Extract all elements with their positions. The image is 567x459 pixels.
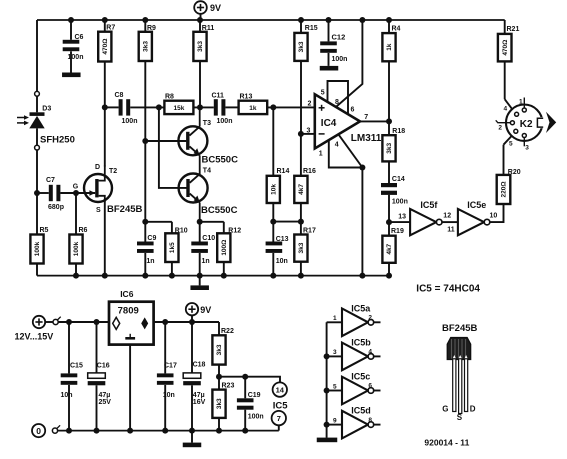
ground below C12 xyxy=(320,66,339,71)
node C15 top xyxy=(66,319,72,325)
node pins1-4 xyxy=(359,165,365,171)
capacitor C10 xyxy=(191,222,215,276)
K2 output arrow xyxy=(546,112,556,133)
wire R21 to K2 pin4 xyxy=(505,99,515,113)
resistor R4 xyxy=(382,20,400,121)
node gndbus-C18 xyxy=(189,428,195,434)
svg-text:470Ω: 470Ω xyxy=(502,40,509,56)
capacitor C12 xyxy=(320,20,347,66)
node R8-R11-T3 collector-C11 xyxy=(197,104,203,110)
svg-text:10n: 10n xyxy=(163,392,175,399)
resistor R21 xyxy=(498,20,520,99)
capacitor C8 xyxy=(105,92,165,125)
wire T4 emitter down xyxy=(199,203,201,222)
plug contact 0 xyxy=(52,425,60,433)
wire pin3 to IC4 xyxy=(301,133,315,135)
svg-text:BC550C: BC550C xyxy=(201,205,238,216)
svg-text:1: 1 xyxy=(519,98,523,105)
node rail-R11 and 9V xyxy=(197,17,203,23)
svg-text:47µ: 47µ xyxy=(193,392,205,399)
svg-text:D: D xyxy=(95,164,100,171)
label 12V...15V xyxy=(15,332,54,342)
svg-text:R19: R19 xyxy=(391,228,404,235)
K2 pin 2 xyxy=(496,120,515,131)
plug contact input xyxy=(53,317,61,325)
svg-text:5: 5 xyxy=(321,90,325,97)
svg-text:3k3: 3k3 xyxy=(216,344,223,355)
svg-text:R12: R12 xyxy=(228,228,241,235)
svg-text:13: 13 xyxy=(398,213,406,220)
svg-text:25V: 25V xyxy=(99,399,112,406)
node gndbus-C15 xyxy=(66,428,72,434)
resistor R7 xyxy=(98,20,115,107)
node R14-C13 xyxy=(270,219,276,225)
svg-text:C7: C7 xyxy=(46,177,55,184)
node C16 top xyxy=(94,319,100,325)
terminal below D3 xyxy=(35,145,40,150)
wire ground bus top section xyxy=(37,275,389,277)
svg-text:D: D xyxy=(470,405,476,414)
svg-text:IC6: IC6 xyxy=(120,289,134,299)
svg-text:IC5a: IC5a xyxy=(351,303,371,313)
resistor R6 xyxy=(69,193,87,276)
svg-text:10n: 10n xyxy=(61,392,73,399)
pin 1 label xyxy=(319,151,323,158)
svg-text:R14: R14 xyxy=(277,168,290,175)
svg-text:1n: 1n xyxy=(146,258,154,265)
wire T3 collector xyxy=(199,107,201,126)
inverter IC5b xyxy=(327,337,381,370)
transistor T4 BC550C xyxy=(179,167,238,215)
node rail-R4 xyxy=(386,17,392,23)
node pin3 xyxy=(298,131,304,137)
resistor R11 xyxy=(193,20,214,107)
svg-text:47µ: 47µ xyxy=(99,392,111,399)
capacitor C9 xyxy=(137,235,156,276)
svg-text:IC5b: IC5b xyxy=(351,337,371,347)
wire IC5f to IC5e xyxy=(442,221,458,223)
svg-text:C10: C10 xyxy=(202,235,215,242)
IC5 pin 7 circle xyxy=(272,411,286,431)
wire IC5 input bus xyxy=(326,322,328,438)
wire R8 to node xyxy=(193,106,213,108)
svg-text:100n: 100n xyxy=(248,414,264,421)
svg-text:BC550C: BC550C xyxy=(202,155,239,166)
svg-text:100n: 100n xyxy=(122,118,138,125)
svg-text:100n: 100n xyxy=(68,54,84,61)
node bus-IC5b xyxy=(324,353,330,359)
svg-text:T2: T2 xyxy=(109,168,117,175)
svg-text:100n: 100n xyxy=(332,56,348,63)
wire pins1-4 to rail xyxy=(361,168,363,276)
IC5 pin 14 circle xyxy=(273,382,287,396)
svg-text:2: 2 xyxy=(368,315,372,322)
svg-text:R6: R6 xyxy=(79,227,88,234)
label T2 pins and name xyxy=(73,164,143,215)
wire R13 to IC4 pin2 xyxy=(267,106,315,108)
resistor R9 xyxy=(139,20,156,141)
svg-text:12V...15V: 12V...15V xyxy=(15,332,54,342)
transistor T3 BC550C xyxy=(178,120,238,165)
svg-text:4k7: 4k7 xyxy=(386,243,393,254)
BF245B pin labels xyxy=(442,405,476,422)
svg-text:5: 5 xyxy=(333,383,337,390)
svg-text:16V: 16V xyxy=(193,399,206,406)
svg-text:100n: 100n xyxy=(392,198,408,205)
capacitor C15 xyxy=(61,322,83,431)
svg-text:SFH250: SFH250 xyxy=(40,134,75,145)
node bus-C10 xyxy=(197,273,203,279)
svg-text:R18: R18 xyxy=(392,128,405,135)
wire IC5e output to R20 xyxy=(490,204,504,222)
resistor R10 xyxy=(165,222,187,276)
wire to IC5f input xyxy=(389,221,410,223)
node rail-C12 xyxy=(326,17,332,23)
wire R22 node to IC5 pin14 xyxy=(219,377,280,383)
svg-text:C6: C6 xyxy=(75,34,84,41)
svg-text:100Ω: 100Ω xyxy=(221,240,228,256)
svg-text:100k: 100k xyxy=(34,241,41,256)
wire to R10 xyxy=(145,221,172,223)
svg-text:C19: C19 xyxy=(248,392,261,399)
svg-text:R17: R17 xyxy=(303,227,316,234)
capacitor C11 xyxy=(212,93,239,126)
svg-text:LM311: LM311 xyxy=(351,133,382,144)
label LM311 xyxy=(351,133,382,144)
svg-text:IC5e: IC5e xyxy=(467,200,486,210)
node rail-R15 xyxy=(298,17,304,23)
svg-text:IC5f: IC5f xyxy=(420,200,438,210)
svg-text:2: 2 xyxy=(498,125,502,132)
node gndbus-C16 xyxy=(94,428,100,434)
resistor R23 xyxy=(212,377,234,431)
svg-text:C9: C9 xyxy=(147,235,156,242)
svg-text:9V: 9V xyxy=(210,3,221,13)
terminal above D3 xyxy=(35,91,40,96)
svg-text:C11: C11 xyxy=(212,93,225,100)
terminal + input xyxy=(33,316,53,328)
svg-text:3: 3 xyxy=(525,144,529,151)
node bus-IC5d xyxy=(324,422,330,428)
K2 pin 1 xyxy=(519,98,526,113)
pin 3 label xyxy=(307,128,311,135)
wire to R12 xyxy=(200,221,224,223)
inverter IC5f xyxy=(410,200,442,235)
wire IC6 output rail xyxy=(154,321,219,323)
svg-text:10n: 10n xyxy=(276,258,288,265)
svg-text:IC5: IC5 xyxy=(273,401,289,412)
svg-text:T4: T4 xyxy=(203,167,211,174)
svg-text:1: 1 xyxy=(319,151,323,158)
svg-text:7809: 7809 xyxy=(118,306,139,317)
svg-text:470Ω: 470Ω xyxy=(102,39,109,55)
node R22-R23 xyxy=(216,374,222,380)
svg-text:4: 4 xyxy=(368,349,372,356)
wire T3 emitter to T4 collector xyxy=(199,155,201,175)
wire top 9V supply rail xyxy=(37,19,505,21)
K2 pin 5 xyxy=(509,129,518,147)
node bus-IC5c xyxy=(324,388,330,394)
svg-text:R5: R5 xyxy=(40,227,49,234)
inverter IC5a xyxy=(327,303,381,336)
wire pin8 from rail xyxy=(336,20,362,107)
capacitor C18 electrolytic xyxy=(183,322,205,431)
node T3 base tee xyxy=(142,138,148,144)
wire down to C9 xyxy=(144,141,146,242)
resistor R18 xyxy=(382,121,405,183)
photodiode D3 xyxy=(29,106,51,129)
svg-text:R22: R22 xyxy=(221,328,234,335)
wire T4 base drop xyxy=(159,107,187,187)
svg-text:3k3: 3k3 xyxy=(298,242,305,253)
node bus-C13 xyxy=(270,273,276,279)
svg-text:1n: 1n xyxy=(202,258,210,265)
node C18-9V top xyxy=(189,319,195,325)
node bus-R19 xyxy=(386,273,392,279)
node C19 top xyxy=(242,374,248,380)
svg-text:R11: R11 xyxy=(202,25,215,32)
svg-text:10k: 10k xyxy=(271,184,278,195)
wire terminal down to R5 xyxy=(36,150,38,235)
node R13-R14-pin2 xyxy=(270,104,276,110)
node bus-C9 xyxy=(142,273,148,279)
transistor T2 BF245B xyxy=(84,166,112,203)
wire ground bus supply xyxy=(58,430,279,432)
pin 5-6 balance loop xyxy=(328,81,349,114)
svg-text:IC4: IC4 xyxy=(321,118,337,129)
svg-text:R20: R20 xyxy=(508,169,521,176)
label 920014-11 xyxy=(424,437,469,447)
svg-text:8: 8 xyxy=(335,99,339,106)
svg-text:R9: R9 xyxy=(147,25,156,32)
capacitor C17 xyxy=(157,322,177,431)
inverter IC5c xyxy=(327,372,381,405)
svg-text:S: S xyxy=(457,413,463,422)
svg-text:C13: C13 xyxy=(276,236,289,243)
svg-text:R21: R21 xyxy=(507,26,520,33)
node R7-C8-T2 junction xyxy=(102,104,108,110)
svg-text:14: 14 xyxy=(276,385,285,394)
svg-text:10: 10 xyxy=(490,212,498,219)
light arrows into D3 xyxy=(17,115,29,125)
node R6 tee on gate wire xyxy=(73,190,79,196)
ground IC5 bus xyxy=(317,438,338,443)
svg-text:BF245B: BF245B xyxy=(442,323,478,334)
svg-text:R23: R23 xyxy=(222,383,235,390)
node bus-R17 xyxy=(298,273,304,279)
svg-text:15k: 15k xyxy=(173,105,184,112)
transistor BF245B package drawing xyxy=(442,323,478,414)
svg-text:100n: 100n xyxy=(217,118,233,125)
wire terminal to D3 xyxy=(36,96,38,112)
svg-text:K2: K2 xyxy=(520,119,533,130)
svg-text:R13: R13 xyxy=(240,94,253,101)
resistor R14 xyxy=(267,168,290,221)
svg-text:0: 0 xyxy=(36,426,41,436)
label SFH250 xyxy=(40,134,75,145)
svg-text:3k3: 3k3 xyxy=(197,41,204,52)
wire input to IC6 xyxy=(58,321,109,323)
wire R14 drop xyxy=(272,107,274,175)
svg-text:IC5c: IC5c xyxy=(351,372,370,382)
svg-text:6: 6 xyxy=(368,383,372,390)
node R16-R17 xyxy=(298,219,304,225)
capacitor C6 xyxy=(63,20,84,73)
svg-text:5: 5 xyxy=(509,140,513,147)
svg-text:920014 - 11: 920014 - 11 xyxy=(424,437,469,447)
svg-text:7: 7 xyxy=(277,414,281,423)
node bus-R6 xyxy=(73,273,79,279)
wire D3 to terminal xyxy=(36,128,38,145)
supply +9V symbol xyxy=(194,1,221,20)
svg-text:1: 1 xyxy=(333,315,337,322)
node rail-C6 xyxy=(68,17,74,23)
node rail-pin8wire xyxy=(359,17,365,23)
svg-text:R4: R4 xyxy=(392,26,401,33)
resistor R16 xyxy=(294,134,316,222)
pin 10 label xyxy=(490,212,498,219)
svg-text:6: 6 xyxy=(351,107,355,114)
svg-text:G: G xyxy=(73,183,79,190)
pin 11 label xyxy=(447,226,455,233)
capacitor C7 xyxy=(37,177,95,211)
svg-text:S: S xyxy=(96,207,101,214)
svg-text:9V: 9V xyxy=(200,305,211,315)
pin 12 label xyxy=(443,212,451,219)
svg-text:R8: R8 xyxy=(165,94,174,101)
svg-text:9: 9 xyxy=(333,417,337,424)
wire pin1 to ground rail xyxy=(329,140,363,167)
svg-text:BF245B: BF245B xyxy=(107,204,143,215)
resistor R13 xyxy=(239,94,268,115)
node bus-R12 xyxy=(221,273,227,279)
wire IC6 ground xyxy=(129,345,131,431)
svg-text:1k: 1k xyxy=(386,43,393,51)
resistor R5 xyxy=(30,227,48,276)
svg-text:11: 11 xyxy=(447,226,455,233)
terminal 0 input xyxy=(32,424,45,437)
wire R14 to R16 bottoms xyxy=(273,221,301,223)
wire T2 source down to rail xyxy=(104,201,106,276)
wire pin4 diagonal xyxy=(338,134,362,167)
svg-text:R7: R7 xyxy=(106,25,115,32)
svg-text:100k: 100k xyxy=(73,241,80,256)
node T4 base drop xyxy=(156,104,162,110)
node rail-R7 xyxy=(102,17,108,23)
svg-text:C17: C17 xyxy=(164,362,177,369)
pin 2 label xyxy=(308,100,312,107)
node C9-R10 tee xyxy=(142,219,148,225)
inverter IC5e xyxy=(458,200,490,235)
ground stub top section xyxy=(190,276,209,290)
node pin7-R4-R18 xyxy=(386,118,392,124)
ground below C6 xyxy=(62,73,81,78)
node C7 tee xyxy=(34,190,40,196)
wire pin 7 output xyxy=(360,120,389,122)
node rail-R9 xyxy=(142,17,148,23)
capacitor C14 xyxy=(381,176,408,222)
node bus-T2 source xyxy=(102,273,108,279)
wire R20 to K2 pin5 xyxy=(504,133,515,175)
op-amp U-IC4 triangle xyxy=(315,94,360,148)
capacitor C13 xyxy=(266,222,289,276)
svg-text:8: 8 xyxy=(368,417,372,424)
svg-text:3k3: 3k3 xyxy=(386,142,393,153)
resistor R20 xyxy=(497,169,521,204)
svg-text:C15: C15 xyxy=(70,362,83,369)
node gndbus-C17 xyxy=(162,428,168,434)
svg-text:4: 4 xyxy=(503,105,507,112)
svg-text:IC5 = 74HC04: IC5 = 74HC04 xyxy=(416,283,480,294)
svg-text:D3: D3 xyxy=(42,106,51,113)
resistor R19 xyxy=(382,222,404,276)
capacitor C16 electrolytic xyxy=(88,322,112,431)
svg-text:T3: T3 xyxy=(203,120,211,127)
node gndbus-C19 xyxy=(242,428,248,434)
svg-text:C14: C14 xyxy=(392,176,405,183)
pin 13 label xyxy=(398,213,406,220)
inverter IC5d xyxy=(327,406,381,439)
svg-text:2: 2 xyxy=(308,100,312,107)
svg-text:R15: R15 xyxy=(305,25,318,32)
svg-text:3: 3 xyxy=(307,128,311,135)
node bus-IC4 pins xyxy=(359,273,365,279)
resistor R22 xyxy=(212,322,234,377)
svg-text:3: 3 xyxy=(333,349,337,356)
pin 5 label xyxy=(321,90,325,97)
K2 pin 3 xyxy=(522,134,529,152)
svg-text:G: G xyxy=(442,405,448,414)
resistor R12 xyxy=(217,222,241,276)
node C17 top xyxy=(162,319,168,325)
svg-text:IC5d: IC5d xyxy=(351,406,371,416)
node gndbus-IC6 gnd xyxy=(127,428,133,434)
voltage regulator IC6 7809 xyxy=(109,289,154,345)
svg-text:680p: 680p xyxy=(48,204,64,211)
svg-text:1k5: 1k5 xyxy=(169,242,176,253)
pin 6 label xyxy=(351,107,355,114)
K2 pin 4 xyxy=(503,105,518,116)
resistor R15 xyxy=(294,20,317,134)
svg-text:220Ω: 220Ω xyxy=(501,181,508,197)
svg-text:C8: C8 xyxy=(115,92,124,99)
svg-text:12: 12 xyxy=(443,212,451,219)
resistor R8 xyxy=(164,94,193,115)
pin 4 label xyxy=(335,141,339,148)
svg-text:C18: C18 xyxy=(193,362,206,369)
svg-text:R16: R16 xyxy=(303,168,316,175)
svg-text:3k3: 3k3 xyxy=(298,41,305,52)
pin 7 label xyxy=(364,114,368,121)
pin 8 label xyxy=(335,99,339,106)
node T4 emitter-C10-R12 xyxy=(197,219,203,225)
resistor R17 xyxy=(294,222,316,276)
svg-text:7: 7 xyxy=(364,114,368,121)
node bus-R10 xyxy=(169,273,175,279)
wire to T3 base xyxy=(145,140,186,142)
ground stub supply xyxy=(183,431,202,448)
capacitor C19 xyxy=(237,377,264,431)
svg-text:4k7: 4k7 xyxy=(298,184,305,195)
node gndbus-R23 xyxy=(216,428,222,434)
node C14-R19-IC5f xyxy=(386,219,392,225)
label IC5 = 74HC04 xyxy=(416,283,480,294)
svg-text:4: 4 xyxy=(335,141,339,148)
label IC5 power xyxy=(273,401,289,412)
svg-text:C16: C16 xyxy=(97,362,110,369)
supply +9V output symbol xyxy=(186,303,212,322)
svg-text:C12: C12 xyxy=(332,32,346,41)
